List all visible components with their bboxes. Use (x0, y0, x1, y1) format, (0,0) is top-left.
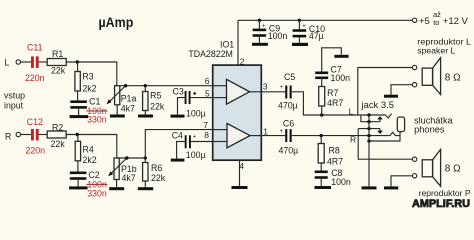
svg-text:+5: +5 (419, 16, 430, 27)
wire (21, 134, 31, 136)
svg-text:R4: R4 (83, 144, 94, 154)
pin 4 ground (239, 160, 241, 186)
capacitor C2 (77, 161, 79, 172)
resistor R7 (321, 79, 323, 86)
wire pin6 (117, 85, 213, 87)
ground (144, 181, 146, 187)
op-amp A2 (227, 123, 250, 147)
svg-text:470µ: 470µ (278, 101, 298, 111)
svg-text:4R7: 4R7 (327, 98, 343, 108)
svg-text:L: L (349, 106, 354, 116)
wire (39, 61, 48, 63)
svg-text:C4: C4 (172, 131, 183, 141)
svg-text:330n: 330n (87, 114, 107, 124)
capacitor C6 (261, 135, 285, 137)
jack switch arm L (361, 115, 380, 122)
resistor R2 (47, 131, 66, 138)
node (125, 156, 128, 159)
svg-text:+: + (280, 129, 284, 135)
wire pin5 (191, 97, 213, 99)
svg-text:22k: 22k (51, 66, 66, 76)
svg-text:R3: R3 (82, 72, 93, 82)
svg-text:22k: 22k (150, 101, 165, 111)
svg-text:22k: 22k (51, 139, 66, 149)
ground (77, 180, 79, 187)
capacitor C3 (178, 98, 185, 115)
wire speaker R feed (358, 129, 412, 160)
wire speaker L feed (358, 68, 413, 116)
resistor R4 (77, 135, 79, 142)
resistor R8 (320, 136, 322, 144)
capacitor C10 (298, 20, 300, 29)
wire R out (292, 135, 389, 137)
wire L out (292, 92, 386, 115)
speaker R (412, 157, 416, 161)
op-amp IC IO1 TDA2822M (213, 65, 262, 160)
resistor R1 (47, 59, 66, 66)
svg-text:input: input (4, 100, 24, 110)
wire (66, 135, 117, 159)
svg-text:8 Ω: 8 Ω (445, 163, 461, 174)
node (144, 84, 147, 87)
capacitor C11 (31, 56, 34, 68)
svg-text:330n: 330n (87, 188, 107, 198)
wire pin8 (191, 141, 213, 143)
ground (78, 109, 80, 115)
svg-text:8: 8 (204, 130, 209, 140)
ground (258, 37, 260, 43)
jack common ground (368, 115, 370, 186)
power terminal (412, 18, 416, 22)
svg-text:+: + (262, 24, 266, 30)
svg-text:6: 6 (205, 76, 210, 86)
capacitor C5 (261, 91, 285, 93)
svg-text:C1: C1 (89, 96, 100, 106)
wire (39, 134, 48, 136)
svg-text:jack 3.5: jack 3.5 (360, 100, 394, 110)
svg-text:speaker L: speaker L (417, 46, 455, 56)
potentiometer P1b (114, 158, 119, 180)
svg-text:+12 V: +12 V (443, 16, 469, 27)
potentiometer P1a (115, 86, 120, 105)
node (320, 134, 323, 137)
svg-text:C5: C5 (284, 72, 295, 82)
node (124, 84, 127, 87)
capacitor C1 (77, 91, 79, 100)
svg-text:R: R (5, 132, 11, 142)
capacitor C7 (322, 48, 342, 72)
headphone plug (397, 117, 404, 132)
svg-text:R5: R5 (150, 91, 161, 101)
wire pin7 (145, 130, 212, 158)
ground (116, 180, 118, 188)
jack switch arm R (358, 128, 380, 130)
svg-text:100µ: 100µ (186, 150, 206, 160)
svg-text:R8: R8 (329, 145, 340, 155)
node (298, 19, 301, 22)
ground speaker L (391, 85, 412, 95)
svg-text:µAmp: µAmp (99, 15, 134, 30)
ground (171, 159, 185, 162)
svg-text:TDA2822M: TDA2822M (188, 49, 233, 59)
wire (117, 157, 146, 159)
svg-text:R6: R6 (151, 163, 162, 173)
ground (144, 111, 146, 115)
svg-text:+: + (280, 85, 284, 91)
wire (66, 62, 117, 86)
svg-text:4R7: 4R7 (327, 157, 343, 167)
svg-text:C3: C3 (173, 86, 184, 96)
svg-text:AMPLIF.RU: AMPLIF.RU (412, 198, 470, 209)
svg-text:100n: 100n (331, 73, 351, 83)
capacitor C8 (320, 163, 322, 171)
resistor R5 (144, 86, 146, 92)
svg-text:R2: R2 (52, 122, 63, 132)
svg-text:1: 1 (263, 126, 268, 136)
svg-text:220n: 220n (25, 73, 45, 83)
node (76, 60, 79, 63)
node (258, 19, 261, 22)
power rail (238, 19, 412, 21)
svg-text:5: 5 (205, 88, 210, 98)
svg-text:to: to (433, 18, 439, 27)
svg-text:C6: C6 (283, 118, 294, 128)
pin 2 wire (237, 20, 239, 65)
node (144, 156, 147, 159)
node (320, 113, 323, 116)
svg-text:47µ: 47µ (309, 31, 324, 41)
ground (334, 55, 348, 58)
jack tip contact L (385, 114, 391, 118)
svg-text:7: 7 (203, 120, 208, 130)
svg-text:8 Ω: 8 Ω (445, 72, 461, 83)
svg-text:vstup: vstup (4, 91, 25, 101)
svg-text:220n: 220n (26, 146, 46, 156)
svg-text:3: 3 (263, 82, 268, 92)
svg-text:C12: C12 (27, 117, 43, 127)
svg-text:+: + (193, 135, 197, 141)
svg-text:R: R (350, 135, 356, 145)
capacitor C9 (258, 20, 260, 28)
svg-text:C11: C11 (27, 42, 43, 52)
svg-text:+: + (302, 24, 306, 30)
svg-text:2k2: 2k2 (83, 155, 97, 165)
svg-text:4k7: 4k7 (122, 173, 136, 183)
svg-text:470µ: 470µ (279, 146, 299, 156)
wire (21, 61, 31, 63)
svg-text:IO1: IO1 (220, 39, 234, 49)
ground (116, 105, 118, 115)
capacitor C12 (31, 129, 34, 141)
ground speaker R (391, 176, 412, 187)
svg-text:R1: R1 (52, 49, 63, 59)
svg-text:2k2: 2k2 (82, 84, 96, 94)
svg-text:100n: 100n (331, 177, 351, 187)
ground (298, 37, 300, 42)
svg-text:100n: 100n (268, 31, 288, 41)
ground (171, 115, 185, 118)
svg-text:L: L (5, 57, 10, 67)
svg-text:P1a: P1a (121, 94, 137, 104)
svg-text:C2: C2 (88, 170, 99, 180)
svg-text:22k: 22k (151, 173, 166, 183)
node (76, 133, 79, 136)
resistor R6 (144, 158, 146, 163)
svg-text:R7: R7 (327, 88, 338, 98)
capacitor C4 (177, 142, 185, 159)
resistor R3 (77, 62, 79, 72)
svg-text:reproduktor P: reproduktor P (419, 188, 471, 198)
svg-text:4k7: 4k7 (121, 103, 135, 113)
op-amp A1 (227, 79, 250, 104)
svg-text:phones: phones (414, 125, 445, 135)
ground (320, 179, 322, 186)
svg-text:100µ: 100µ (186, 108, 206, 118)
svg-text:2: 2 (240, 56, 245, 66)
